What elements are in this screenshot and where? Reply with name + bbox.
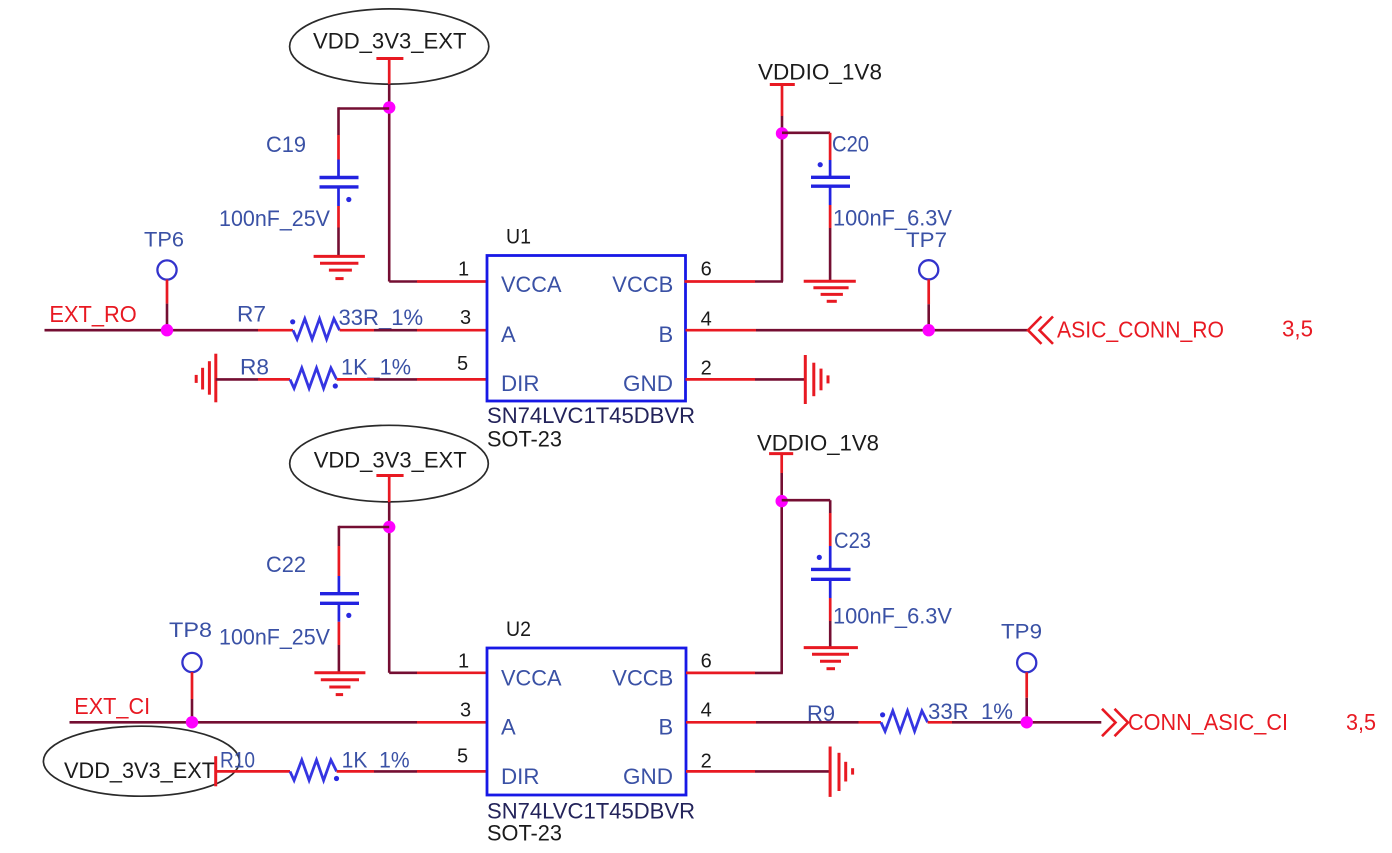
node junction VDDIO: [776, 127, 788, 139]
power port VDD_3V3_EXT (top ellipse): [290, 9, 489, 84]
port chevron ASIC_CONN_RO: [1028, 317, 1053, 344]
ground under C23: [804, 648, 858, 669]
svg-text:TP8: TP8: [169, 619, 212, 642]
node junction VDD net: [383, 101, 395, 113]
node junction EXT_RO / TP6: [161, 324, 173, 336]
svg-text:C22: C22: [266, 552, 306, 577]
svg-text:TP6: TP6: [144, 229, 184, 252]
svg-text:TP7: TP7: [906, 229, 947, 252]
power port VDD_3V3_EXT (bottom left ellipse): [43, 726, 239, 796]
resistor R7: [290, 319, 340, 340]
capacitor C23: [811, 513, 851, 621]
wire TP8 down: [191, 672, 194, 722]
svg-text:VCCA: VCCA: [501, 272, 562, 297]
wire C23 to ground: [829, 621, 832, 648]
node junction VDDIO (bottom): [776, 495, 788, 507]
op-amp U1 (level shifter SN74LVC1T45DBVR): [487, 226, 686, 402]
wire R10 to pin 5 (U2): [337, 770, 487, 773]
wire pin 6 stub: [685, 280, 784, 283]
wire TP7 down: [927, 279, 930, 330]
svg-text:A: A: [501, 322, 516, 347]
svg-text:ASIC_CONN_RO: ASIC_CONN_RO: [1057, 317, 1224, 343]
svg-text:TP9: TP9: [1001, 620, 1042, 643]
ground under C19: [314, 256, 365, 278]
resistor R8: [290, 368, 338, 389]
power bar symbol (rotated, feeds R10): [216, 756, 290, 786]
svg-text:3: 3: [460, 700, 471, 722]
power port VDDIO_1V8 (top): [758, 60, 882, 117]
capacitor C22: [320, 546, 359, 645]
svg-text:4: 4: [701, 700, 712, 722]
svg-text:EXT_CI: EXT_CI: [74, 693, 150, 719]
svg-text:R8: R8: [240, 355, 269, 380]
op-amp U2 (level shifter SN74LVC1T45DBVR): [487, 618, 686, 795]
wire C20 to ground: [829, 228, 832, 281]
svg-text:C20: C20: [832, 132, 869, 157]
power port VDD_3V3_EXT (bottom middle ellipse): [290, 425, 489, 502]
wire junction to C23: [782, 500, 831, 513]
svg-text:VCCB: VCCB: [612, 272, 673, 297]
pin 1 stub wire VCCA (U2): [389, 671, 487, 674]
svg-text:VDD_3V3_EXT: VDD_3V3_EXT: [64, 758, 215, 783]
svg-text:33R_1%: 33R_1%: [339, 305, 424, 330]
svg-text:DIR: DIR: [501, 371, 540, 396]
capacitor C19: [320, 135, 359, 228]
wire C19 to ground: [337, 228, 340, 257]
wire junction to C19: [339, 107, 390, 135]
svg-text:R7: R7: [237, 302, 266, 327]
wire EXT_RO: [45, 329, 294, 332]
svg-text:1: 1: [458, 651, 469, 673]
ground (right) at pin 2 of U2: [830, 747, 853, 797]
svg-text:5: 5: [457, 353, 468, 375]
svg-text:VCCA: VCCA: [501, 666, 562, 691]
wire VDDIO down to pin 6: [781, 116, 784, 282]
svg-text:6: 6: [701, 651, 712, 673]
wire junction to C22: [339, 526, 389, 546]
wire TP9 down: [1025, 672, 1028, 722]
wire pin 6 stub (U2): [686, 672, 783, 675]
test point TP8: [169, 619, 212, 672]
svg-text:4: 4: [701, 308, 712, 330]
svg-text:U2: U2: [506, 618, 531, 641]
svg-text:R9: R9: [807, 701, 835, 726]
wire TP6 down: [166, 280, 169, 331]
wire pin 2 to ground (U2): [686, 770, 829, 773]
power port VDDIO_1V8 (bottom): [757, 431, 879, 474]
svg-text:VDD_3V3_EXT: VDD_3V3_EXT: [314, 448, 467, 473]
node junction TP9 / CONN_ASIC_CI: [1020, 716, 1032, 728]
svg-text:1K_1%: 1K_1%: [341, 355, 411, 380]
svg-text:100nF_25V: 100nF_25V: [219, 625, 330, 650]
ground under C20: [804, 281, 856, 301]
svg-text:GND: GND: [623, 764, 673, 789]
svg-text:3: 3: [460, 307, 471, 329]
node junction TP7 / ASIC_CONN_RO: [923, 324, 935, 336]
svg-text:VDD_3V3_EXT: VDD_3V3_EXT: [313, 28, 467, 53]
wire pin 4 to output: [686, 329, 1028, 332]
resistor R10: [290, 760, 339, 781]
node junction EXT_CI / TP8: [186, 716, 198, 728]
wire VDD down to VCCA elbow (U2): [388, 502, 391, 673]
test point TP9: [1001, 620, 1042, 672]
ground (right) at pin 2 of U1: [805, 355, 828, 404]
svg-text:B: B: [659, 322, 674, 347]
svg-text:33R_1%: 33R_1%: [928, 699, 1013, 724]
capacitor C20: [811, 160, 850, 228]
svg-text:EXT_RO: EXT_RO: [49, 301, 136, 327]
svg-text:1K_1%: 1K_1%: [342, 748, 410, 773]
svg-text:100nF_25V: 100nF_25V: [219, 206, 330, 231]
svg-text:U1: U1: [506, 226, 531, 249]
pin 1 stub wire VCCA: [389, 280, 487, 283]
svg-text:R10: R10: [220, 748, 255, 773]
svg-text:2: 2: [701, 357, 712, 379]
wire R9 to output: [928, 721, 1102, 724]
svg-text:1: 1: [458, 258, 469, 280]
resistor R9: [880, 711, 928, 732]
power bar symbol VDD_3V3_EXT: [376, 59, 403, 85]
wire R8 to pin 5: [337, 378, 487, 381]
power bar symbol VDD_3V3_EXT (bottom): [376, 476, 403, 503]
svg-text:C23: C23: [834, 528, 871, 553]
wire R7 to pin 3: [340, 329, 487, 332]
wire EXT_CI to pin 3: [70, 721, 488, 724]
svg-text:6: 6: [701, 258, 712, 280]
svg-text:VCCB: VCCB: [612, 666, 673, 691]
svg-text:100nF_6.3V: 100nF_6.3V: [833, 206, 952, 231]
wire pin 4 to R9: [686, 721, 881, 724]
svg-text:5: 5: [457, 745, 468, 767]
svg-text:3,5: 3,5: [1282, 316, 1313, 342]
svg-text:VDDIO_1V8: VDDIO_1V8: [758, 60, 882, 85]
test point TP6: [144, 229, 184, 280]
wire pin 2 to ground: [686, 378, 805, 381]
svg-text:DIR: DIR: [501, 764, 540, 789]
ground under C22: [314, 673, 365, 695]
svg-text:C19: C19: [266, 132, 306, 157]
svg-text:A: A: [501, 715, 516, 740]
ground (left) at R8: [196, 354, 216, 403]
svg-text:CONN_ASIC_CI: CONN_ASIC_CI: [1128, 709, 1288, 735]
svg-text:SN74LVC1T45DBVR: SN74LVC1T45DBVR: [487, 403, 695, 428]
svg-text:3,5: 3,5: [1346, 709, 1376, 735]
svg-text:2: 2: [701, 750, 712, 772]
svg-text:GND: GND: [623, 371, 673, 396]
svg-text:B: B: [659, 715, 674, 740]
svg-text:SOT-23: SOT-23: [487, 427, 562, 452]
port chevron CONN_ASIC_CI: [1102, 709, 1128, 736]
svg-text:VDDIO_1V8: VDDIO_1V8: [757, 431, 879, 456]
svg-text:100nF_6.3V: 100nF_6.3V: [833, 604, 952, 629]
svg-text:SOT-23: SOT-23: [487, 821, 562, 846]
wire ground to R8: [216, 378, 290, 381]
test point TP7: [906, 229, 947, 279]
node junction VDD net (bottom): [383, 521, 395, 533]
wire VDDIO down to pin 6 (U2): [780, 473, 783, 673]
wire VDD_3V3_EXT to VCCA elbow: [388, 84, 391, 282]
wire junction to C20: [782, 133, 830, 160]
wire C22 to ground: [338, 645, 341, 673]
